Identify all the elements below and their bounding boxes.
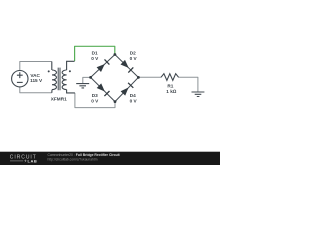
bridge edge L-B (91, 77, 115, 101)
diode D2 cathode bar (128, 67, 133, 72)
transformer phasing dot right (69, 70, 71, 72)
diode D4 cathode bar (128, 83, 133, 88)
voltage source minus (17, 81, 23, 83)
transformer core (58, 68, 60, 91)
wire: resistor to right ground (179, 77, 198, 91)
transformer secondary lead top (67, 61, 75, 70)
svg-text:D2: D2 (130, 51, 136, 56)
svg-text:VAC: VAC (30, 73, 40, 78)
bridge edge L-T (91, 55, 115, 78)
node B junction dot (114, 100, 117, 103)
svg-text:D4: D4 (130, 93, 136, 98)
footer logo rule (10, 160, 23, 162)
wire: bridge node L to left ground (83, 77, 91, 83)
bridge edge T-R (115, 55, 138, 78)
resistor R1 zigzag (161, 74, 179, 81)
wire: green selected net secondary top to bridge T (75, 46, 115, 61)
svg-text:0 V: 0 V (91, 56, 99, 61)
svg-text:D3: D3 (92, 93, 98, 98)
node L junction dot (89, 76, 92, 79)
ground right (192, 92, 205, 97)
ground left (76, 84, 89, 88)
diode D3 cathode bar (104, 91, 109, 96)
svg-text:XFMR1: XFMR1 (51, 97, 67, 102)
node R junction dot (137, 76, 140, 79)
transformer phasing dot left (48, 70, 50, 72)
svg-text:LAB: LAB (28, 158, 38, 163)
svg-text:R1: R1 (167, 83, 173, 88)
svg-text:0 V: 0 V (130, 56, 138, 61)
voltage source plus (17, 72, 23, 78)
bridge edge B-R (115, 77, 138, 101)
svg-text:0 V: 0 V (130, 99, 138, 104)
diode D1 cathode bar (105, 59, 110, 64)
transformer secondary winding (62, 70, 67, 90)
wire: secondary bottom to bridge node B (75, 93, 115, 108)
footer bar (0, 152, 220, 165)
diode D2 triangle (121, 60, 129, 68)
transformer secondary lead bottom (67, 90, 75, 93)
transformer primary lead bottom (51, 90, 53, 93)
footer logo bolt (24, 159, 26, 162)
svg-text:0 V: 0 V (91, 99, 99, 104)
svg-text:115 V: 115 V (30, 78, 43, 83)
transformer XFMR1 primary lead top (51, 62, 53, 71)
diode D4 triangle (121, 88, 129, 96)
wire: primary loop top (20, 62, 52, 71)
transformer primary winding (52, 70, 57, 90)
svg-text:http://circuitlab.com/c/7ukaun: http://circuitlab.com/c/7ukaunahtm (48, 157, 98, 161)
wire: primary loop bottom (20, 87, 52, 93)
svg-text:D1: D1 (92, 51, 98, 56)
svg-text:1 kΩ: 1 kΩ (166, 89, 177, 94)
diode D1 triangle (97, 64, 105, 72)
diode D3 triangle (97, 83, 105, 91)
wire: bridge node R to resistor (138, 76, 161, 78)
voltage source VAC circle (12, 71, 28, 87)
node T junction dot (114, 53, 117, 56)
